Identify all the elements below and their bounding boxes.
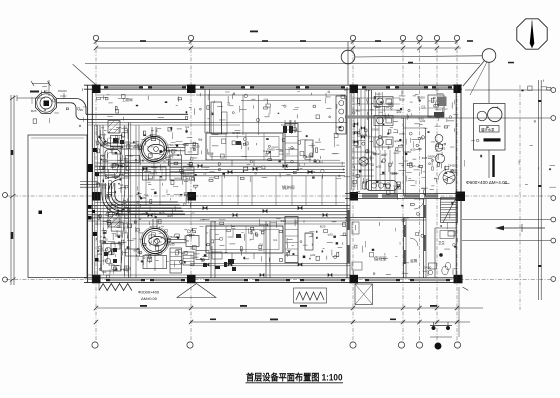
louver vent (294, 288, 327, 303)
right room pipework (352, 150, 395, 190)
svg-text:G1: G1 (120, 183, 124, 187)
svg-text:G1: G1 (412, 164, 416, 168)
pad label (466, 180, 508, 185)
svg-text:Φ25: Φ25 (168, 149, 174, 153)
exchanger E2 (183, 167, 194, 180)
svg-text:Φ25: Φ25 (399, 97, 405, 101)
svg-text:25: 25 (185, 239, 189, 243)
callout bubble B1 (341, 42, 482, 86)
svg-text:DN50: DN50 (448, 164, 456, 168)
exchanger E3 (170, 248, 182, 273)
svg-text:Φ25: Φ25 (184, 173, 190, 177)
detail texture right room (352, 88, 428, 200)
boiler B1 (206, 124, 313, 170)
svg-text:DN200: DN200 (58, 89, 67, 93)
svg-text:25: 25 (387, 146, 391, 150)
detail texture P2 area (132, 226, 199, 267)
door D3 (410, 238, 418, 246)
right dimension lines and bubbles (430, 80, 556, 300)
exchanger E4 (183, 252, 194, 265)
north wall columns (92, 85, 462, 94)
flue duct (211, 102, 227, 134)
svg-text:φ32: φ32 (396, 110, 402, 114)
south wall with windows (84, 278, 462, 283)
boiler hall label (282, 184, 295, 191)
detail texture south rooms (353, 202, 457, 277)
svg-text:Φ25: Φ25 (31, 109, 37, 113)
svg-text:G1: G1 (273, 238, 277, 242)
dosing skid (102, 223, 124, 271)
svg-text:DN50: DN50 (424, 265, 432, 269)
horizontal grid axis lines (6, 196, 553, 280)
svg-text:φ32: φ32 (99, 171, 105, 175)
detail texture boiler1 (198, 127, 350, 182)
west riser pipes (80, 125, 125, 277)
svg-text:DN50: DN50 (372, 127, 380, 131)
room wall W2 (424, 199, 427, 278)
svg-text:Φ600×400 ΔM+4.00: Φ600×400 ΔM+4.00 (466, 180, 508, 185)
svg-text:Φ25: Φ25 (280, 219, 286, 223)
svg-text:G1: G1 (319, 160, 323, 164)
svg-text:25: 25 (435, 88, 439, 92)
svg-text:G1: G1 (352, 184, 356, 188)
rack tie pipes (146, 176, 336, 206)
boiler B2 (206, 217, 313, 263)
svg-text:Φ2000×400: Φ2000×400 (138, 290, 160, 295)
svg-text:φ32: φ32 (310, 253, 316, 257)
svg-text:G1: G1 (191, 193, 195, 197)
svg-text:DN50: DN50 (260, 223, 268, 227)
svg-text:φ32: φ32 (365, 88, 371, 92)
svg-text:G1: G1 (198, 137, 202, 141)
svg-text:DN50: DN50 (267, 148, 275, 152)
svg-text:Φ25: Φ25 (167, 214, 173, 218)
south aux boxes (196, 251, 227, 270)
left dimension lines (10, 91, 45, 286)
svg-text:DN50: DN50 (450, 169, 458, 173)
manifold vessel (363, 181, 401, 191)
svg-text:DN50: DN50 (232, 131, 240, 135)
north compass (517, 19, 547, 49)
door D2 (438, 169, 449, 180)
svg-text:DN50: DN50 (417, 96, 425, 100)
exterior equipment pad (474, 104, 506, 179)
svg-text:首层设备平面布置图 1:100: 首层设备平面布置图 1:100 (246, 372, 343, 383)
inner line south (88, 259, 350, 277)
svg-text:φ32: φ32 (328, 232, 334, 236)
vertical pipes (136, 89, 295, 278)
svg-text:25: 25 (203, 171, 207, 175)
svg-text:Φ25: Φ25 (362, 133, 368, 137)
svg-text:Φ25: Φ25 (125, 267, 131, 271)
pump P2 volute (141, 219, 199, 271)
svg-text:25: 25 (227, 102, 231, 106)
svg-text:φ32: φ32 (140, 212, 146, 216)
svg-text:Φ25: Φ25 (355, 145, 361, 149)
axis-D columns (92, 192, 465, 202)
svg-text:Φ25: Φ25 (403, 216, 409, 220)
pump P1 volute (140, 127, 198, 179)
svg-text:φ32: φ32 (108, 186, 114, 190)
svg-text:φ32: φ32 (374, 152, 380, 156)
south canopy (177, 284, 216, 298)
exchanger E1 (170, 155, 182, 180)
south wall columns (92, 275, 463, 284)
north wall with windows (84, 85, 462, 89)
deaerator tank (336, 96, 346, 134)
svg-text:25: 25 (80, 108, 84, 112)
svg-text:浴厕: 浴厕 (410, 258, 418, 263)
bottom grid bubbles (92, 342, 461, 349)
pipe rack B (88, 203, 350, 225)
pump P2 foundation (143, 256, 167, 269)
svg-text:φ32: φ32 (161, 235, 167, 239)
svg-text:DN50: DN50 (187, 233, 195, 237)
bottom dimension lines (94, 305, 483, 324)
top grid axis bubbles (93, 35, 459, 40)
duct label (138, 290, 160, 302)
svg-text:DN50: DN50 (113, 216, 121, 220)
detail texture pump room N (96, 127, 133, 202)
svg-text:25: 25 (279, 149, 283, 153)
detail texture top strip (199, 90, 347, 122)
svg-text:25: 25 (101, 141, 105, 145)
pipe elbows (102, 183, 185, 214)
svg-text:Φ25: Φ25 (391, 172, 397, 176)
detail texture corridor (96, 94, 194, 120)
pump P1 motor (108, 121, 140, 163)
svg-text:Φ25: Φ25 (255, 165, 261, 169)
exterior stair SE (355, 284, 373, 305)
svg-text:DN50: DN50 (428, 154, 436, 158)
west inlet pipes (58, 89, 188, 120)
title (246, 372, 344, 383)
svg-text:Φ25: Φ25 (208, 151, 214, 155)
svg-text:φ32: φ32 (376, 164, 382, 168)
exterior pump and elbow (31, 80, 86, 120)
door D1 (414, 199, 424, 209)
svg-text:G1: G1 (185, 125, 189, 129)
svg-text:DN50: DN50 (167, 243, 175, 247)
south rooms fixtures (374, 231, 455, 275)
east wall (456, 85, 461, 282)
pipe elbows upper (97, 125, 141, 149)
svg-text:25: 25 (113, 199, 117, 203)
svg-text:φ32: φ32 (97, 252, 103, 256)
svg-text:锅炉间: 锅炉间 (282, 184, 295, 191)
svg-text:25: 25 (265, 152, 269, 156)
boiler hall east wall (347, 87, 350, 278)
corridor label (122, 97, 133, 102)
svg-text:G1: G1 (441, 147, 445, 151)
svg-text:G1: G1 (191, 210, 195, 214)
svg-text:25: 25 (150, 133, 154, 137)
vertical grid axis lines (96, 41, 457, 342)
burner flange cluster (281, 120, 295, 133)
svg-text:G1: G1 (102, 270, 106, 274)
detail texture right outside (464, 80, 556, 188)
svg-text:φ32: φ32 (375, 105, 381, 109)
svg-text:φ32: φ32 (124, 221, 130, 225)
svg-text:Φ25: Φ25 (133, 248, 139, 252)
svg-text:φ32: φ32 (394, 139, 400, 143)
svg-text:750×5: 750×5 (168, 143, 177, 147)
left grid axis bubbles (3, 193, 8, 283)
svg-text:25: 25 (294, 219, 298, 223)
pump P1 foundation (143, 167, 167, 180)
skid pump S3 (374, 137, 393, 147)
pump P2 motor (104, 215, 140, 257)
cabinet right (428, 95, 447, 118)
west wall (88, 85, 94, 282)
rack valves (118, 164, 328, 217)
svg-text:Φ25: Φ25 (140, 196, 146, 200)
right room pipe runs (345, 90, 443, 190)
detail texture between pumps (134, 168, 198, 225)
crane rail line (88, 123, 347, 126)
room wall W3 (345, 218, 426, 221)
detail texture pump room S (97, 199, 134, 278)
staircase (441, 198, 458, 223)
svg-text:DN50: DN50 (192, 144, 200, 148)
skid pump S1 (374, 97, 393, 107)
pipe rack A (95, 160, 345, 176)
vertical leader right (519, 85, 521, 310)
detail texture right strip (427, 88, 458, 194)
svg-text:25: 25 (125, 158, 129, 162)
svg-text:Φ25: Φ25 (418, 117, 424, 121)
svg-text:φ32: φ32 (410, 147, 416, 151)
axis-D wall (345, 194, 461, 199)
skid pump S2 (374, 116, 393, 126)
room wall W1 (404, 219, 407, 278)
south room details (347, 205, 454, 276)
svg-text:Φ25: Φ25 (108, 202, 114, 206)
break line SW (99, 283, 132, 291)
svg-text:ΔM±0.00: ΔM±0.00 (141, 296, 158, 301)
svg-text:750×5: 750×5 (169, 235, 178, 239)
svg-text:DN50: DN50 (99, 183, 107, 187)
right room valves (354, 122, 365, 144)
inner line north (95, 95, 346, 135)
svg-text:Φ25: Φ25 (159, 211, 165, 215)
detail texture ext pump (31, 87, 87, 127)
bottom right marks (430, 287, 468, 337)
svg-text:φ32: φ32 (102, 258, 108, 262)
svg-text:Φ25: Φ25 (320, 224, 326, 228)
top dimension lines (85, 31, 514, 64)
svg-text:卫生: 卫生 (438, 240, 445, 245)
detail texture boiler2 (199, 219, 347, 262)
toilet wall (435, 228, 456, 278)
leader to NW corner (73, 64, 96, 85)
svg-text:工顾间: 工顾间 (122, 97, 133, 102)
detail texture P1 area (133, 125, 200, 171)
right room partitions (352, 90, 426, 196)
tanks and floor drains (359, 135, 455, 184)
flow arrow (495, 224, 545, 232)
duct loop (105, 135, 122, 190)
pump room wall (129, 123, 131, 278)
left platform (28, 135, 87, 278)
callout bubble B2 (463, 49, 496, 103)
